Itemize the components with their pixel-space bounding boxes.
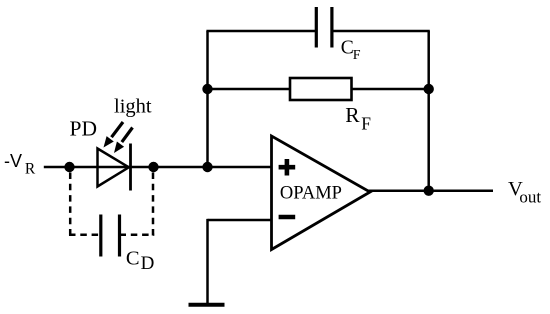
ground [189, 303, 225, 307]
svg-text:out: out [519, 187, 541, 206]
svg-text:F: F [353, 48, 361, 63]
wire: output wire [368, 189, 493, 192]
svg-text:D: D [141, 253, 155, 274]
wire: top feedback wire left segment to CF [206, 30, 316, 33]
svg-text:PD: PD [70, 117, 97, 141]
junction dot: right riser / resistor row [424, 84, 434, 94]
capacitor C_D plates [101, 215, 120, 257]
svg-text:F: F [361, 114, 371, 134]
wire: resistor row left segment [208, 88, 291, 91]
wire: dashed bottom right segment from CD [120, 234, 155, 237]
op-amp minus input symbol [279, 215, 296, 219]
label C_F [341, 38, 361, 63]
svg-text:light: light [114, 96, 152, 118]
photodiode PD [98, 144, 131, 191]
svg-text:-V: -V [4, 151, 22, 171]
svg-text:R: R [25, 161, 36, 178]
label R_F [345, 103, 371, 134]
label light [114, 96, 152, 118]
svg-text:OPAMP: OPAMP [280, 183, 342, 203]
wire: main input wire from -VR to op-amp + input [44, 166, 272, 169]
wire: dashed right drop from cathode node [152, 173, 155, 237]
wire: right feedback vertical to output node [427, 31, 430, 191]
wire: inverting input wire [208, 219, 272, 222]
op-amp U1 triangle [272, 136, 371, 250]
svg-text:R: R [345, 103, 360, 127]
wire: resistor row right segment [352, 88, 429, 91]
wire: top feedback wire right segment from CF [332, 30, 430, 33]
light arrow 2 [114, 128, 133, 154]
junction dot: left riser / resistor row [202, 84, 212, 94]
op-amp plus input symbol [279, 159, 296, 176]
light arrow 1 [104, 122, 124, 148]
resistor R_F body [290, 78, 352, 100]
wire: left feedback vertical riser [206, 31, 209, 167]
wire: dashed bottom left segment to CD [69, 234, 101, 237]
junction dot: main wire / left riser [202, 162, 212, 172]
capacitor C_F plates [316, 7, 332, 48]
wire: dashed left drop from anode node [69, 173, 72, 237]
junction dot: output node [424, 186, 434, 196]
junction dot: photodiode anode node [64, 162, 74, 172]
label PD [70, 117, 97, 141]
label -VR supply [4, 151, 36, 177]
label OPAMP [280, 183, 342, 203]
svg-text:C: C [126, 248, 140, 270]
wire: ground drop [206, 219, 209, 303]
label Vout [508, 178, 541, 206]
label C_D [126, 248, 154, 275]
junction dot: photodiode cathode node [148, 162, 158, 172]
